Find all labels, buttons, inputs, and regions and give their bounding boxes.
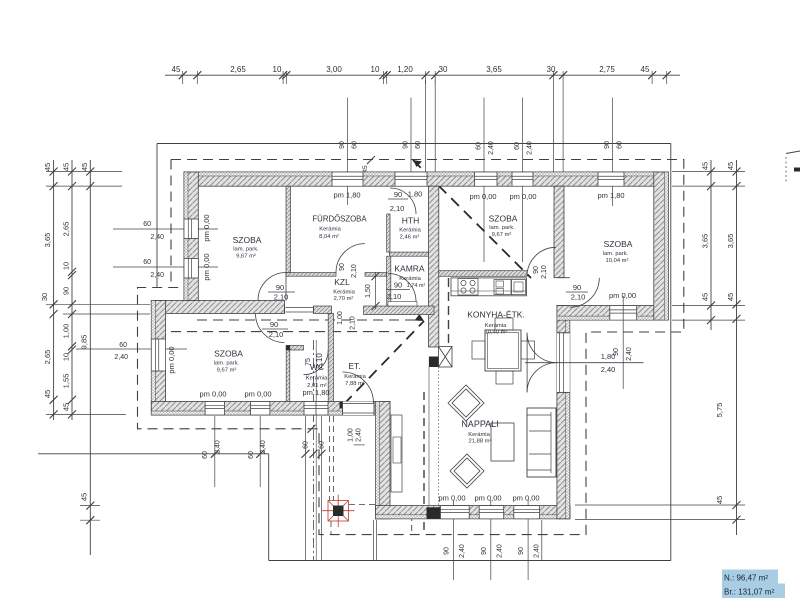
kitchen stove	[458, 279, 478, 296]
terrace double door arcs	[527, 333, 557, 363]
svg-text:2,40: 2,40	[459, 544, 466, 558]
window hth top	[395, 172, 427, 186]
dimension column left inner 9.85	[89, 160, 91, 555]
svg-text:2,40: 2,40	[260, 440, 267, 454]
svg-text:2,40: 2,40	[215, 440, 222, 454]
window furdoszoba top	[332, 172, 363, 186]
svg-text:45: 45	[701, 293, 710, 301]
window leader szoba1 left lower	[113, 266, 218, 268]
svg-text:90: 90	[339, 141, 346, 149]
svg-text:90: 90	[613, 348, 620, 356]
svg-text:pm 0,00: pm 0,00	[469, 192, 496, 201]
door szoba2 arc	[256, 314, 285, 343]
roof hip diagonal with arrow NW	[413, 160, 531, 278]
front door opening	[343, 402, 375, 416]
window szoba middle french 2	[512, 172, 533, 186]
svg-text:3,65: 3,65	[43, 233, 52, 248]
svg-text:8,04 m²: 8,04 m²	[319, 234, 339, 240]
armchair diamond 2	[450, 454, 484, 488]
svg-text:2,10: 2,10	[269, 330, 284, 339]
wall wc et	[328, 314, 333, 402]
door szoba middle arc	[527, 247, 556, 276]
svg-text:90: 90	[339, 263, 346, 271]
svg-text:1,74 m²: 1,74 m²	[407, 283, 426, 289]
column black konyha	[429, 357, 439, 368]
wall szoba middle bottom	[439, 271, 527, 277]
svg-text:2,46 m²: 2,46 m²	[400, 235, 420, 241]
svg-text:30: 30	[547, 65, 556, 74]
svg-text:45: 45	[80, 493, 89, 501]
svg-text:1,00: 1,00	[62, 324, 71, 339]
svg-text:90: 90	[394, 190, 402, 199]
tick on eave line entrance	[308, 425, 316, 433]
svg-text:9,85: 9,85	[80, 335, 89, 350]
svg-text:60: 60	[143, 259, 151, 266]
svg-text:SZOBA: SZOBA	[214, 349, 243, 359]
svg-text:pm 0,00: pm 0,00	[167, 346, 176, 373]
svg-text:5,75: 5,75	[715, 403, 724, 418]
svg-text:SZOBA: SZOBA	[604, 239, 633, 249]
window leader szoba2 left	[76, 348, 187, 350]
door opening szoba right from konyha	[557, 278, 570, 306]
svg-text:pm 1,80: pm 1,80	[333, 191, 360, 200]
svg-text:pm 1,80: pm 1,80	[597, 191, 624, 200]
svg-text:10: 10	[62, 262, 71, 270]
svg-text:90: 90	[62, 287, 71, 295]
svg-text:2,40: 2,40	[534, 544, 541, 558]
svg-text:2,40: 2,40	[496, 544, 503, 558]
svg-text:30: 30	[439, 65, 448, 74]
chair bottom	[496, 371, 513, 384]
jamb cap front door	[340, 402, 344, 409]
svg-text:60: 60	[303, 441, 310, 449]
kitchen appliance	[512, 280, 526, 295]
exterior wall nappali bottom	[376, 506, 571, 519]
chair right	[521, 341, 535, 359]
exterior wall left lower	[151, 301, 165, 416]
svg-text:3,65: 3,65	[726, 234, 735, 249]
column black nappali bottom	[427, 507, 441, 519]
svg-text:90: 90	[443, 547, 450, 555]
svg-text:45: 45	[715, 496, 724, 504]
svg-text:2,65: 2,65	[230, 65, 246, 74]
dimension column left middle	[71, 160, 73, 420]
eave tick 45 label	[367, 156, 375, 164]
svg-text:10: 10	[62, 353, 71, 361]
svg-text:60: 60	[143, 221, 151, 228]
exterior wall left upper	[184, 172, 198, 301]
svg-text:lam. park.: lam. park.	[214, 361, 240, 367]
door wc arc	[304, 350, 329, 375]
window nappali bottom 2	[479, 506, 504, 519]
exterior wall right	[654, 172, 669, 320]
dimension column right inner	[710, 160, 712, 330]
svg-text:90: 90	[533, 266, 540, 274]
chair left	[472, 341, 485, 359]
svg-text:10,04 m²: 10,04 m²	[606, 258, 629, 264]
svg-text:Kerámia: Kerámia	[485, 323, 507, 329]
witness lines top windows	[347, 98, 349, 174]
area info box	[722, 570, 778, 584]
svg-text:WC: WC	[310, 362, 324, 372]
wall wc top	[286, 346, 303, 351]
svg-text:2,65: 2,65	[43, 350, 52, 365]
left extension lines	[46, 171, 122, 173]
svg-text:2,40: 2,40	[356, 428, 363, 442]
svg-text:2,10: 2,10	[350, 316, 357, 330]
svg-text:60: 60	[202, 451, 209, 459]
door szoba right arc	[570, 278, 600, 308]
svg-text:60: 60	[617, 141, 624, 149]
svg-text:KZL: KZL	[334, 277, 350, 287]
svg-text:60: 60	[415, 141, 422, 149]
svg-text:60: 60	[119, 342, 127, 349]
wall hth kamra szoba thick	[429, 186, 439, 347]
svg-text:9,67 m²: 9,67 m²	[236, 254, 256, 260]
svg-text:pm 0,00: pm 0,00	[609, 291, 636, 300]
svg-text:1,00: 1,00	[348, 428, 355, 442]
svg-text:90: 90	[481, 547, 488, 555]
porch column red marked	[322, 495, 355, 528]
site boundary rectangle	[157, 143, 671, 145]
kitchen counter	[451, 278, 527, 296]
svg-text:SZOBA: SZOBA	[489, 214, 518, 224]
roof valley diagonal with arrow NE	[344, 321, 424, 404]
exterior wall bottom szoba2 wc et	[151, 402, 390, 416]
window szoba2 left	[151, 339, 165, 371]
svg-text:Kerámia: Kerámia	[319, 227, 341, 233]
window leader szoba1 left upper	[113, 228, 218, 230]
window szoba middle french 1	[475, 172, 497, 186]
svg-text:45: 45	[641, 65, 650, 74]
svg-text:60: 60	[248, 451, 255, 459]
window szoba1 left lower	[184, 259, 198, 279]
svg-text:60: 60	[352, 141, 359, 149]
svg-text:2,40: 2,40	[601, 365, 616, 374]
svg-text:30: 30	[40, 293, 49, 301]
svg-text:3,65: 3,65	[486, 65, 502, 74]
window szoba right bottom	[610, 306, 637, 321]
witness lines entrance windows	[305, 416, 307, 560]
svg-text:45: 45	[362, 165, 369, 173]
svg-text:90: 90	[270, 320, 278, 329]
svg-text:2,40: 2,40	[626, 347, 633, 361]
svg-text:2,70 m²: 2,70 m²	[334, 296, 354, 302]
svg-text:45: 45	[726, 162, 735, 170]
kitchen sink	[494, 280, 511, 295]
svg-text:pm 0,00: pm 0,00	[202, 253, 211, 280]
exterior wall top	[184, 172, 668, 186]
nappali cabinet left	[391, 415, 402, 492]
svg-text:45: 45	[43, 163, 52, 171]
section line entrance dash-dot	[313, 340, 315, 561]
witness lines szoba2 bottom windows	[214, 416, 216, 487]
dining table	[485, 330, 521, 371]
svg-text:pm 1,80: pm 1,80	[302, 388, 329, 397]
wall kamra left	[387, 256, 391, 306]
svg-text:SZOBA: SZOBA	[233, 235, 262, 245]
wall hth left	[387, 214, 390, 252]
dimension line top	[165, 74, 680, 76]
window szoba1 left upper	[184, 219, 198, 239]
jamb cap wc corner	[286, 346, 290, 351]
front entrance door arc	[343, 372, 374, 403]
window szoba2 bottom 1	[205, 402, 224, 416]
kamra door sill	[388, 302, 417, 307]
svg-text:1,00: 1,00	[337, 311, 344, 325]
svg-text:2,10: 2,10	[351, 264, 358, 278]
step wall between szoba1 and szoba2	[151, 301, 284, 314]
svg-text:Kerámia: Kerámia	[399, 276, 421, 282]
svg-text:Kerámia: Kerámia	[306, 376, 328, 382]
wall wc szoba2	[286, 346, 290, 402]
wall hth kamra divider	[390, 252, 429, 256]
svg-text:1,55: 1,55	[62, 374, 71, 389]
porch roof dashed lines	[329, 416, 331, 500]
window nappali bottom 3	[514, 506, 540, 519]
dimension line bottom main	[269, 560, 671, 562]
svg-text:pm 0,00: pm 0,00	[512, 494, 539, 503]
window nappali bottom 1	[440, 506, 469, 519]
svg-text:ET.: ET.	[348, 361, 360, 371]
svg-text:2,10: 2,10	[390, 204, 405, 213]
svg-text:Kerámia: Kerámia	[468, 432, 490, 438]
section line kitchen dashed	[448, 278, 450, 346]
dimension column right outer	[736, 160, 738, 535]
shaft with X	[439, 347, 453, 368]
svg-text:90: 90	[276, 283, 284, 292]
svg-text:21,88 m²: 21,88 m²	[469, 439, 492, 445]
roof line dashed middle 2	[171, 331, 411, 333]
svg-text:2,10: 2,10	[387, 292, 402, 301]
exterior wall nappali left	[376, 402, 391, 519]
svg-text:45: 45	[172, 65, 181, 74]
svg-text:FÜRDŐSZOBA: FÜRDŐSZOBA	[312, 215, 367, 224]
svg-text:7,88 m²: 7,88 m²	[345, 381, 365, 387]
svg-text:1,80: 1,80	[408, 190, 423, 199]
exterior wall nappali konyha right	[557, 306, 570, 519]
door kamra arc	[388, 274, 416, 302]
window et bottom double	[304, 402, 328, 416]
dimension line bottom left wing	[38, 453, 269, 455]
terrace door opening nappali right	[557, 333, 570, 393]
svg-text:2,40: 2,40	[114, 354, 128, 361]
witness lines nappali bottom windows	[452, 500, 454, 580]
svg-text:3,00: 3,00	[326, 65, 342, 74]
svg-text:Kerámia: Kerámia	[333, 290, 355, 296]
sofa	[527, 408, 556, 477]
svg-text:2,75: 2,75	[599, 65, 615, 74]
svg-text:45: 45	[80, 163, 89, 171]
svg-text:2,10: 2,10	[274, 293, 289, 302]
svg-text:90: 90	[573, 283, 581, 292]
door szoba1 arc	[258, 273, 286, 301]
svg-text:Br.: 131,07 m²: Br.: 131,07 m²	[724, 588, 775, 597]
svg-text:10: 10	[371, 65, 380, 74]
svg-text:lam. park.: lam. park.	[603, 251, 629, 257]
svg-text:N.: 96,47 m²: N.: 96,47 m²	[724, 574, 768, 583]
svg-text:pm 0,00: pm 0,00	[474, 494, 501, 503]
svg-text:10: 10	[273, 65, 282, 74]
door furdoszoba arc	[336, 244, 365, 273]
window szoba2 bottom 2	[251, 402, 270, 416]
armchair diamond 1	[448, 385, 484, 421]
svg-text:pm 0,00: pm 0,00	[202, 214, 211, 241]
svg-text:2,65: 2,65	[62, 222, 71, 237]
wall szoba1 furdoszoba	[286, 186, 291, 272]
svg-text:90: 90	[604, 141, 611, 149]
svg-text:Kerámia: Kerámia	[399, 228, 421, 234]
svg-text:45: 45	[701, 162, 710, 170]
svg-text:1,20: 1,20	[397, 65, 413, 74]
chair top	[495, 318, 513, 330]
svg-text:2,10: 2,10	[571, 293, 586, 302]
zone division lines konyha nappali	[428, 367, 430, 505]
svg-text:45: 45	[62, 403, 71, 411]
svg-text:pm 0,00: pm 0,00	[199, 390, 226, 399]
svg-text:45: 45	[43, 390, 52, 398]
svg-text:45: 45	[62, 163, 71, 171]
dimension column left outer	[53, 160, 55, 420]
exterior wall szoba wing bottom	[557, 306, 668, 321]
wall lobby top piece	[314, 306, 332, 314]
svg-text:9,67 m²: 9,67 m²	[492, 232, 512, 238]
door hth arc	[390, 188, 416, 214]
coffee table	[491, 423, 514, 461]
roof eaves dashed outline	[138, 160, 684, 535]
svg-text:45: 45	[726, 293, 735, 301]
roof line dashed middle 1	[197, 319, 415, 321]
wall et top	[364, 306, 434, 315]
svg-text:pm 0,00: pm 0,00	[438, 494, 465, 503]
svg-text:lam. park.: lam. park.	[489, 225, 515, 231]
adjacent drawing fragment top right	[786, 151, 800, 154]
svg-text:lam. park.: lam. park.	[233, 247, 259, 253]
right extension lines	[672, 171, 745, 173]
wall furdoszoba bottom	[286, 273, 336, 277]
svg-text:KAMRA: KAMRA	[394, 264, 425, 274]
svg-text:1,50: 1,50	[365, 284, 372, 298]
svg-text:90: 90	[518, 547, 525, 555]
window szoba right top	[598, 172, 624, 186]
label kzl width 1,50	[375, 272, 377, 309]
svg-text:Kerámia: Kerámia	[344, 374, 366, 380]
svg-text:pm 0,00: pm 0,00	[509, 192, 536, 201]
svg-text:pm 0,00: pm 0,00	[244, 390, 271, 399]
wall between szoba middle and szoba right	[554, 186, 564, 278]
svg-text:9,67 m²: 9,67 m²	[217, 368, 237, 374]
svg-text:3,65: 3,65	[701, 234, 710, 249]
svg-text:2,10: 2,10	[541, 265, 548, 279]
svg-text:HTH: HTH	[402, 216, 419, 226]
door szoba2 sill	[286, 307, 314, 309]
svg-text:90: 90	[403, 141, 410, 149]
